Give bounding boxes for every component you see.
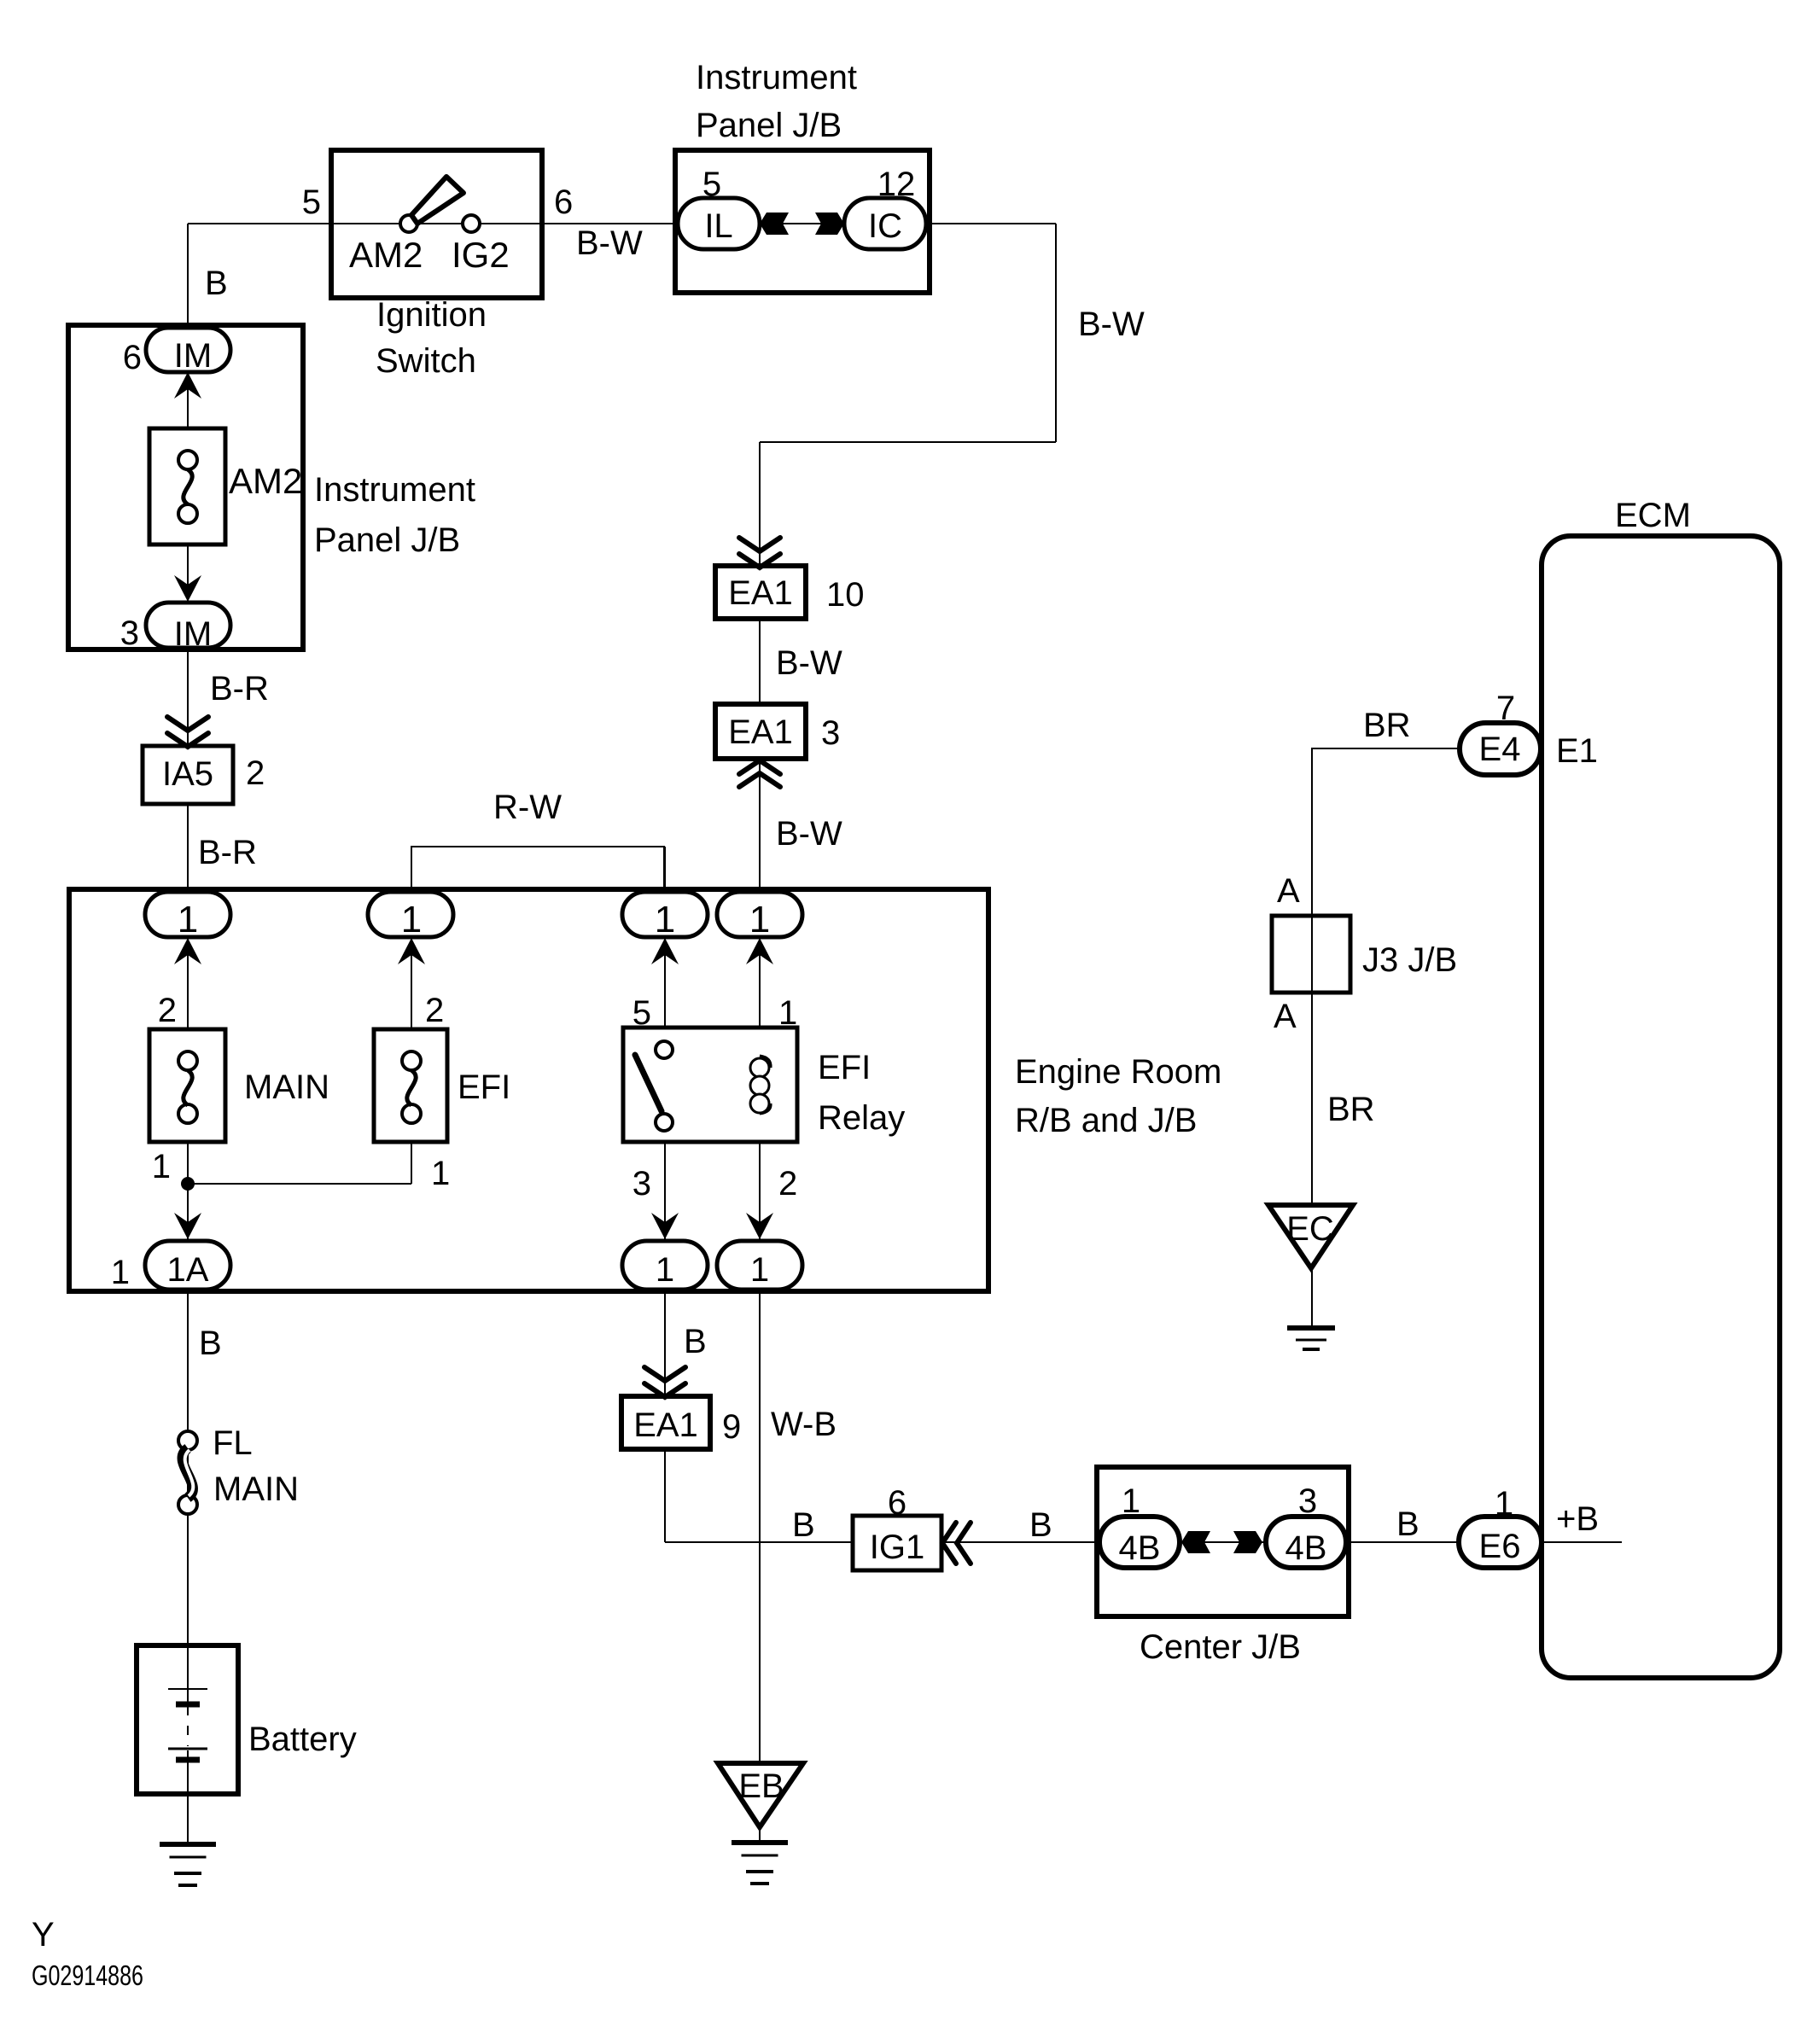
wire: left branch vertical x=220 (MAIN fuse through 1A and FL MAIN to battery) — [187, 1109, 189, 1703]
EFI relay upper contact (pin 5) — [656, 1041, 673, 1058]
svg-text:5: 5 — [702, 166, 721, 203]
svg-text:IA5: IA5 — [162, 755, 213, 793]
connector oval 1 (relay pin5 top) — [622, 892, 708, 937]
fuse AM2 element top terminal — [178, 451, 197, 469]
svg-text:5: 5 — [302, 183, 321, 221]
battery positive long plate — [168, 1688, 207, 1690]
svg-text:Relay: Relay — [818, 1099, 905, 1137]
svg-text:B-W: B-W — [576, 224, 643, 262]
connector oval 1 (B-R into engine room) — [145, 892, 230, 937]
svg-text:A: A — [1274, 998, 1297, 1035]
ignition switch box — [331, 150, 542, 298]
battery second short thick plate — [176, 1757, 200, 1763]
svg-text:EA1: EA1 — [728, 574, 793, 612]
battery second long plate — [168, 1748, 207, 1750]
chevron pair right of IG1 — [942, 1523, 971, 1564]
svg-text:IM: IM — [174, 615, 212, 653]
svg-text:AM2: AM2 — [349, 235, 423, 275]
wire: relay pin3 down through EA1(9) to bottom row — [664, 1127, 666, 1542]
svg-text:Instrument: Instrument — [314, 471, 475, 509]
fuse AM2 element wavy link — [184, 469, 192, 504]
svg-text:1A: 1A — [167, 1251, 209, 1289]
svg-text:IC: IC — [868, 207, 902, 245]
svg-text:Panel J/B: Panel J/B — [314, 521, 460, 559]
svg-text:B-W: B-W — [776, 815, 842, 853]
fuse MAIN element bottom terminal — [178, 1104, 197, 1123]
ground triangle EC — [1268, 1205, 1353, 1268]
chevron pair below EA1 pin3 — [739, 760, 780, 787]
connector oval IM pin 3 — [146, 603, 230, 648]
connector oval 1A (bottom left) — [145, 1241, 230, 1290]
connector IG1 box — [853, 1516, 941, 1570]
wire: bottom B horizontal y=1807 from relay branch to IG1, center J/B, E6 and into ECM — [665, 1541, 1622, 1543]
svg-text:5: 5 — [633, 994, 651, 1032]
svg-text:E6: E6 — [1479, 1528, 1521, 1565]
connector IA5 box — [143, 746, 233, 804]
arrow down into IM pin3 oval — [174, 575, 201, 602]
svg-text:BR: BR — [1327, 1091, 1375, 1128]
svg-text:MAIN: MAIN — [244, 1069, 329, 1106]
svg-text:7: 7 — [1496, 690, 1515, 727]
svg-text:A: A — [1277, 872, 1300, 910]
svg-text:Panel J/B: Panel J/B — [696, 107, 842, 144]
wire: relay coil branch vertical x=890 upper — [759, 442, 761, 1063]
connector arrow right (IC side) — [815, 213, 844, 235]
wire: junction horizontal y=1387 from MAIN pin1 to EFI pin1 — [188, 1183, 411, 1185]
arrow down into oval 1A — [174, 1213, 201, 1239]
connector oval E6 pin 1 — [1459, 1517, 1542, 1568]
svg-text:EFI: EFI — [818, 1049, 871, 1086]
ground symbol (EB) — [732, 1843, 788, 1884]
svg-text:R-W: R-W — [493, 789, 562, 826]
ground triangle EB — [718, 1763, 803, 1827]
connector oval 4B pin 3 — [1266, 1517, 1346, 1568]
arrow up into oval 1 (B-R) — [174, 938, 201, 964]
svg-text:Battery: Battery — [248, 1721, 357, 1758]
fuse EFI element wavy link — [407, 1070, 416, 1105]
svg-text:EFI: EFI — [458, 1069, 510, 1106]
svg-text:4B: 4B — [1285, 1529, 1327, 1567]
svg-text:W-B: W-B — [771, 1406, 837, 1443]
arrow up into oval 1 (R-W) — [398, 938, 425, 964]
fuse AM2 element bottom terminal — [178, 504, 197, 523]
chevron pair into EA1 pin9 — [644, 1367, 685, 1397]
svg-text:G02914886: G02914886 — [32, 1960, 143, 1991]
wire: EB triangle tip to ground — [759, 1827, 761, 1843]
fuse EFI element bottom terminal — [402, 1104, 421, 1123]
EFI relay box — [623, 1028, 797, 1142]
wire: EFI fuse pin1 drop to junction row — [411, 1109, 412, 1184]
wire: B-W horizontal jog y=518 — [760, 441, 1056, 443]
wire: relay coil pin2 down W-B to EB ground triangle — [759, 1109, 761, 1763]
connector oval E4 pin 7 — [1460, 723, 1541, 775]
svg-text:R/B and J/B: R/B and J/B — [1015, 1102, 1197, 1139]
wire: EC triangle tip to ground — [1311, 1268, 1313, 1325]
svg-text:B: B — [1396, 1505, 1420, 1543]
svg-text:3: 3 — [821, 714, 840, 752]
fuse EFI box — [374, 1029, 447, 1142]
svg-text:B-W: B-W — [1078, 306, 1145, 343]
svg-text:Engine Room: Engine Room — [1015, 1053, 1221, 1091]
fusible link FL MAIN bottom terminal — [178, 1495, 197, 1514]
svg-text:BR: BR — [1363, 707, 1411, 744]
wire: battery negative to ground — [187, 1750, 189, 1843]
EFI relay coil — [750, 1056, 771, 1114]
svg-text:2: 2 — [158, 992, 177, 1029]
svg-text:IM: IM — [174, 337, 212, 375]
svg-text:3: 3 — [633, 1165, 651, 1203]
ground symbol (EC) — [1287, 1328, 1335, 1349]
connector arrow left (4B pin1 side) — [1181, 1531, 1210, 1553]
svg-text:1: 1 — [431, 1155, 450, 1192]
wire: left branch B vertical x=220 upper run (switch pin5 to AM2 fuse) — [187, 224, 189, 464]
svg-text:6: 6 — [554, 183, 573, 221]
connector oval 1 (R-W into engine room) — [368, 892, 453, 937]
svg-text:1: 1 — [401, 899, 422, 940]
EFI relay switch blade — [635, 1055, 662, 1111]
svg-text:1: 1 — [111, 1254, 130, 1291]
ignition switch contact IG2 — [463, 215, 480, 232]
chevron pair into EA1 pin10 — [739, 538, 780, 568]
wire: R-W horizontal y=992 — [411, 847, 664, 891]
fusible link FL MAIN wavy element — [183, 1448, 194, 1498]
junction node MAIN pin1 / EFI pin1 — [181, 1177, 195, 1191]
battery short thick plate — [176, 1702, 200, 1708]
instrument panel J/B box (top) — [675, 150, 930, 293]
svg-text:EA1: EA1 — [728, 713, 793, 751]
svg-text:Instrument: Instrument — [696, 59, 857, 96]
svg-text:Y: Y — [32, 1916, 55, 1954]
wire: EFI fuse branch vertical x=481 — [411, 891, 412, 1065]
svg-text:E1: E1 — [1556, 732, 1598, 770]
svg-text:B: B — [199, 1325, 222, 1362]
svg-text:B: B — [205, 265, 228, 302]
J3 J/B box — [1272, 916, 1350, 993]
svg-text:1: 1 — [750, 1251, 769, 1289]
connector oval IC pin 12 — [844, 198, 926, 249]
instrument panel J/B box (left) — [68, 325, 303, 649]
connector arrow right (4B pin3 side) — [1233, 1531, 1262, 1553]
svg-text:1: 1 — [778, 994, 797, 1032]
svg-text:1: 1 — [1122, 1482, 1140, 1520]
connector oval IL pin 5 — [678, 198, 760, 249]
svg-text:Center J/B: Center J/B — [1140, 1628, 1301, 1666]
svg-text:1: 1 — [152, 1148, 171, 1185]
fuse AM2 box — [149, 428, 225, 544]
connector oval 1 (bottom relay pin2) — [717, 1241, 802, 1290]
arrow up into IM pin6 oval — [174, 372, 201, 399]
svg-text:2: 2 — [246, 754, 265, 792]
svg-text:B-R: B-R — [210, 670, 269, 708]
svg-text:ECM: ECM — [1615, 497, 1691, 534]
arrow down into bottom oval 1 (pin3) — [651, 1213, 679, 1239]
svg-text:Switch: Switch — [376, 342, 476, 380]
svg-text:6: 6 — [888, 1484, 906, 1522]
svg-text:1: 1 — [655, 899, 675, 940]
connector EA1 box pin 10 — [715, 566, 806, 619]
connector EA1 box pin 3 — [715, 704, 806, 759]
svg-text:1: 1 — [1495, 1485, 1513, 1523]
engine room R/B and J/B box — [69, 889, 988, 1291]
svg-text:Ignition: Ignition — [376, 296, 487, 334]
fusible link FL MAIN top terminal — [178, 1431, 197, 1450]
svg-text:2: 2 — [425, 992, 444, 1029]
svg-text:AM2: AM2 — [229, 461, 302, 501]
svg-text:1: 1 — [178, 899, 198, 940]
wire: battery internal dashed link — [187, 1706, 189, 1746]
svg-text:EA1: EA1 — [633, 1406, 698, 1444]
svg-text:B: B — [792, 1506, 815, 1544]
arrow down into bottom oval 1 (pin2) — [746, 1213, 773, 1239]
svg-text:EC: EC — [1286, 1210, 1334, 1248]
ignition switch contact AM2 — [400, 215, 417, 232]
fuse EFI element top terminal — [402, 1051, 421, 1070]
svg-text:6: 6 — [123, 339, 142, 376]
wire: B-W vertical drop right of instrument panel J/B x=1237 — [1055, 224, 1057, 442]
center J/B box — [1097, 1467, 1349, 1616]
fuse MAIN box — [149, 1029, 225, 1142]
svg-text:B: B — [684, 1323, 707, 1360]
connector oval IM pin 6 — [146, 328, 230, 372]
svg-text:1: 1 — [749, 899, 770, 940]
svg-text:2: 2 — [778, 1165, 797, 1203]
svg-text:IG1: IG1 — [870, 1529, 924, 1566]
svg-text:B: B — [1029, 1506, 1052, 1544]
svg-text:MAIN: MAIN — [213, 1470, 299, 1508]
svg-text:10: 10 — [826, 576, 865, 614]
svg-text:1: 1 — [656, 1251, 674, 1289]
fuse MAIN element wavy link — [184, 1070, 192, 1105]
ignition switch lever — [411, 177, 463, 224]
chevron pair into IA5 — [167, 717, 208, 747]
wire: relay switch branch vertical x=779 upper — [664, 847, 666, 1054]
svg-text:EB: EB — [738, 1767, 784, 1805]
svg-text:3: 3 — [1298, 1482, 1317, 1520]
connector EA1 box pin 9 — [621, 1396, 710, 1449]
wire: left branch vertical x=220 (AM2 fuse to MAIN fuse) — [187, 514, 189, 1065]
arrow up into oval 1 (relay pin1) — [746, 938, 773, 964]
svg-text:FL: FL — [213, 1424, 253, 1462]
svg-text:12: 12 — [877, 166, 916, 203]
svg-text:4B: 4B — [1119, 1529, 1161, 1567]
svg-text:IL: IL — [704, 207, 732, 245]
svg-text:E4: E4 — [1479, 731, 1521, 768]
connector arrow left (IL side) — [760, 213, 789, 235]
ECM box U1 — [1542, 536, 1780, 1678]
svg-text:B-R: B-R — [198, 834, 257, 871]
connector oval 4B pin 1 — [1099, 1517, 1180, 1568]
connector oval 1 (relay pin1 top, B-W) — [717, 892, 802, 937]
svg-text:+B: +B — [1556, 1500, 1599, 1538]
wire: BR horizontal y=877 from E4 to x1537 — [1312, 748, 1461, 1205]
svg-text:9: 9 — [722, 1408, 741, 1446]
arrow up into oval 1 (relay pin5) — [651, 938, 679, 964]
connector oval 1 (bottom relay pin3) — [622, 1241, 708, 1290]
svg-text:3: 3 — [120, 614, 139, 652]
EFI relay lower contact (pin 3) — [656, 1114, 673, 1131]
svg-text:J3 J/B: J3 J/B — [1362, 941, 1457, 979]
svg-text:B-W: B-W — [776, 644, 842, 682]
wire: top horizontal B / B-W run y=262 from node at x220 through ignition switch to IL/IC and to x1237 — [188, 223, 1056, 224]
svg-text:IG2: IG2 — [452, 235, 510, 275]
ground symbol (battery) — [160, 1844, 216, 1885]
battery box — [137, 1645, 238, 1794]
fuse MAIN element top terminal — [178, 1051, 197, 1070]
